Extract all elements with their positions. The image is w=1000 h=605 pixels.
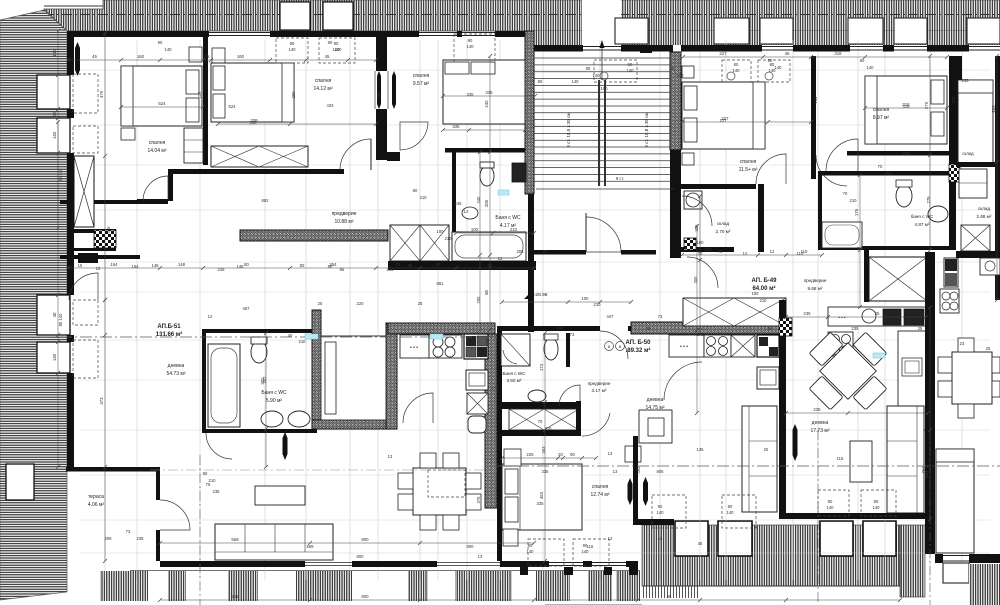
svg-text:АП. Б-50: АП. Б-50 <box>626 340 652 346</box>
svg-text:140: 140 <box>593 73 601 78</box>
wall west small rooms <box>60 200 168 204</box>
svg-text:210: 210 <box>420 195 428 200</box>
svg-text:279: 279 <box>926 196 931 204</box>
roof hatch band top left section <box>44 0 1000 31</box>
svg-text:25: 25 <box>418 301 423 306</box>
dormer window boxes top band <box>280 2 310 30</box>
svg-text:100: 100 <box>582 296 590 301</box>
svg-text:спалня: спалня <box>413 73 430 79</box>
svg-text:25: 25 <box>986 346 991 351</box>
svg-text:220: 220 <box>357 301 365 306</box>
svg-text:дневна: дневна <box>168 363 185 369</box>
svg-text:2.70 м²: 2.70 м² <box>716 229 731 234</box>
svg-text:140: 140 <box>165 47 173 52</box>
svg-text:140: 140 <box>52 131 57 139</box>
svg-text:73: 73 <box>126 529 131 534</box>
b50 dashed skylights <box>528 539 564 566</box>
b49 couch <box>887 406 924 513</box>
b50 top wall <box>497 326 600 331</box>
svg-text:210: 210 <box>209 478 217 483</box>
fr sklad walls <box>956 162 1000 167</box>
stair landing line <box>536 188 674 190</box>
b49 bed1 <box>682 82 765 149</box>
corridor south hatched wall <box>240 230 388 241</box>
b49 sklad door arc <box>687 257 718 288</box>
svg-text:80 140: 80 140 <box>58 313 63 326</box>
b50 closet X strip <box>509 409 579 430</box>
svg-text:90: 90 <box>468 38 473 43</box>
b49 bath walls <box>818 171 949 176</box>
svg-text:463: 463 <box>541 446 546 454</box>
svg-text:25: 25 <box>764 447 769 452</box>
bedroom3 skylight <box>454 34 495 62</box>
closet X left <box>74 156 94 227</box>
svg-text:12: 12 <box>464 209 469 214</box>
svg-text:110: 110 <box>797 251 804 256</box>
balcony window boxes bottom <box>675 521 708 556</box>
svg-text:9 ст. 15,9 х 30 см: 9 ст. 15,9 х 30 см <box>566 112 571 147</box>
svg-text:90: 90 <box>828 499 833 504</box>
svg-text:228: 228 <box>218 267 226 272</box>
fr west wall lower <box>925 430 935 554</box>
svg-text:473: 473 <box>99 397 104 405</box>
svg-text:140: 140 <box>289 47 297 52</box>
left band window boxes <box>37 75 70 109</box>
checker on party wall <box>779 318 792 336</box>
svg-text:70: 70 <box>718 249 723 254</box>
svg-text:302: 302 <box>262 376 267 384</box>
svg-text:206: 206 <box>105 536 113 541</box>
bath417 top wall <box>445 148 534 153</box>
b49 sklad washer <box>684 191 702 209</box>
svg-text:80: 80 <box>52 111 57 116</box>
svg-text:210: 210 <box>545 426 553 431</box>
b50 shower <box>501 334 530 366</box>
svg-text:164: 164 <box>110 262 118 267</box>
party wall radiator bars <box>377 71 381 109</box>
svg-text:12: 12 <box>743 251 748 256</box>
svg-text:Баня с WC: Баня с WC <box>261 390 287 396</box>
svg-text:170: 170 <box>492 386 500 391</box>
nightstands beds <box>189 47 202 62</box>
svg-text:210: 210 <box>299 339 307 344</box>
bath590 walls <box>202 329 317 333</box>
b50 entry gap arc <box>600 331 628 359</box>
section mark circles <box>605 342 614 351</box>
svg-text:9 ст.: 9 ст. <box>616 176 624 181</box>
bottom-left terrace hatch columns <box>100 571 148 601</box>
b49 bedroom south wall <box>680 184 756 189</box>
elevator car <box>321 336 386 420</box>
svg-text:15: 15 <box>96 266 101 271</box>
b50 kitchen sink below <box>757 367 779 389</box>
b50 entry arc <box>664 362 702 400</box>
terrace door arc <box>160 500 190 530</box>
left terrace hatch band <box>0 10 67 600</box>
corridor nw niche wall <box>137 199 168 203</box>
corridor north wall <box>168 169 344 174</box>
svg-text:45: 45 <box>408 263 413 268</box>
bottom-right balcony hatch tall part <box>900 525 925 597</box>
svg-text:45: 45 <box>325 54 330 59</box>
svg-text:100: 100 <box>437 229 445 234</box>
svg-text:175: 175 <box>854 208 859 216</box>
svg-text:.89.32 м²: .89.32 м² <box>626 347 651 354</box>
svg-text:спалня: спалня <box>149 140 166 146</box>
svg-text:спалня: спалня <box>592 484 609 490</box>
corridor X closet <box>390 225 449 261</box>
svg-text:210: 210 <box>705 247 713 252</box>
svg-text:предверие: предверие <box>332 211 357 217</box>
svg-text:дневна: дневна <box>647 397 664 403</box>
svg-text:160: 160 <box>601 86 609 91</box>
svg-text:90: 90 <box>203 471 208 476</box>
svg-text:235: 235 <box>213 489 221 494</box>
black box wc left <box>78 253 98 263</box>
svg-text:9.68 м²: 9.68 м² <box>808 286 823 291</box>
b49 X dining table <box>791 314 904 427</box>
svg-text:338: 338 <box>250 120 258 125</box>
svg-text:25: 25 <box>488 263 493 268</box>
left outer wall <box>67 31 74 75</box>
party wall top section <box>376 31 387 71</box>
svg-text:80: 80 <box>734 62 739 67</box>
b51 south window lines <box>305 562 352 564</box>
svg-text:140: 140 <box>867 65 875 70</box>
construction grid lines <box>104 40 106 580</box>
b49 bedroom2 south wall <box>847 151 956 156</box>
b49 party wall b50 <box>779 300 786 410</box>
svg-text:210: 210 <box>760 298 768 303</box>
bath590 tub <box>208 344 240 427</box>
svg-text:205: 205 <box>484 199 489 207</box>
svg-text:АП. Б-49: АП. Б-49 <box>752 278 778 284</box>
svg-text:280: 280 <box>291 91 296 99</box>
svg-text:80: 80 <box>770 62 775 67</box>
svg-text:9.57 м²: 9.57 м² <box>413 81 430 87</box>
b49 bath tub small <box>822 222 862 248</box>
bath417 tub <box>452 232 526 261</box>
svg-text:225: 225 <box>526 452 534 457</box>
landing right wall lower <box>670 194 681 258</box>
b50 small table <box>639 410 672 443</box>
svg-text:• • •: • • • <box>410 345 418 351</box>
svg-text:140: 140 <box>627 68 635 73</box>
b49 bed1 side tables <box>682 66 694 78</box>
roof hatch band right tall section <box>534 31 1000 45</box>
svg-text:9 ст. 15,8 х 30 см: 9 ст. 15,8 х 30 см <box>644 112 649 147</box>
svg-text:463: 463 <box>539 491 544 499</box>
b50 south wall piers <box>545 561 549 567</box>
svg-text:211: 211 <box>813 96 818 103</box>
bed 1 <box>121 66 202 126</box>
bed 2 <box>211 63 294 122</box>
b49 dashed skylights <box>818 490 849 516</box>
svg-text:131.66 м²: 131.66 м² <box>156 331 182 338</box>
svg-text:140: 140 <box>527 549 535 554</box>
roof ridge line <box>44 5 103 7</box>
svg-text:спалня: спалня <box>740 159 757 165</box>
fr east wall <box>995 56 1000 300</box>
b50 sink <box>528 390 546 402</box>
svg-text:80: 80 <box>484 290 489 295</box>
svg-text:80: 80 <box>860 58 865 63</box>
elevator shaft hatched U <box>312 310 321 429</box>
svg-text:335: 335 <box>452 124 460 129</box>
svg-text:210: 210 <box>885 171 893 176</box>
svg-text:279: 279 <box>951 96 956 104</box>
svg-text:12: 12 <box>498 256 503 261</box>
stair left wall <box>525 31 534 194</box>
svg-text:90: 90 <box>768 326 773 331</box>
svg-text:90: 90 <box>290 41 295 46</box>
b50 toilet <box>544 338 558 360</box>
svg-text:• • •: • • • <box>838 315 846 320</box>
svg-text:4.06 м²: 4.06 м² <box>88 502 105 508</box>
svg-text:90: 90 <box>583 543 588 548</box>
svg-text:173: 173 <box>539 363 544 371</box>
svg-text:805: 805 <box>657 469 665 474</box>
svg-text:80: 80 <box>328 264 333 269</box>
svg-text:45: 45 <box>658 536 663 541</box>
svg-text:318: 318 <box>903 104 911 109</box>
svg-text:335: 335 <box>542 469 550 474</box>
svg-text:80: 80 <box>300 263 305 268</box>
svg-text:45: 45 <box>205 54 210 59</box>
svg-text:70: 70 <box>878 164 883 169</box>
svg-text:23: 23 <box>960 341 965 346</box>
svg-text:25: 25 <box>396 262 401 267</box>
b49 sklad checker <box>684 238 696 250</box>
svg-text:45: 45 <box>667 594 672 599</box>
svg-text:15: 15 <box>78 263 83 268</box>
b51 bath door arc <box>206 433 232 459</box>
svg-text:335: 335 <box>537 501 545 506</box>
svg-text:524: 524 <box>158 101 166 106</box>
svg-text:90: 90 <box>874 499 879 504</box>
svg-text:140: 140 <box>467 44 475 49</box>
svg-text:13: 13 <box>478 554 483 559</box>
svg-text:90: 90 <box>628 62 633 67</box>
svg-text:85: 85 <box>340 267 345 272</box>
b49 bath door arc <box>826 139 858 171</box>
svg-text:227: 227 <box>719 51 727 56</box>
svg-text:70: 70 <box>843 191 848 196</box>
b49 tv table <box>850 441 872 482</box>
b49 corridor door arc from stair <box>682 196 712 226</box>
svg-text:140: 140 <box>677 73 685 78</box>
svg-text:90: 90 <box>728 504 733 509</box>
center dash-dot line horizontal <box>0 336 497 338</box>
stair right wall <box>670 52 681 150</box>
door arc niche nw <box>143 176 168 201</box>
svg-text:73: 73 <box>570 332 575 337</box>
kitchen U hatched b51 <box>388 323 495 334</box>
svg-text:447: 447 <box>607 314 615 319</box>
svg-text:800: 800 <box>361 537 369 542</box>
top wall right window lines <box>583 46 621 48</box>
svg-text:235: 235 <box>852 326 860 331</box>
svg-text:баня с WC: баня с WC <box>911 214 934 219</box>
svg-text:дневна: дневна <box>812 420 829 426</box>
svg-text:25: 25 <box>918 326 923 331</box>
svg-text:210: 210 <box>850 198 858 203</box>
svg-text:• • •: • • • <box>680 344 688 350</box>
svg-text:25: 25 <box>543 249 548 254</box>
svg-text:255: 255 <box>517 249 525 254</box>
door arc left wc <box>69 273 98 300</box>
bedroom1 wardrobe <box>184 128 203 163</box>
svg-text:5.90 м²: 5.90 м² <box>266 398 283 404</box>
svg-text:70: 70 <box>538 419 543 424</box>
svg-text:90: 90 <box>586 66 591 71</box>
svg-text:569: 569 <box>231 537 239 542</box>
top wall window lines <box>209 32 270 34</box>
svg-text:90: 90 <box>158 40 163 45</box>
svg-text:140: 140 <box>52 49 57 57</box>
svg-text:14.75 м²: 14.75 м² <box>645 405 664 411</box>
fr kitchen sink <box>980 258 1000 275</box>
fr dashdot <box>929 430 931 605</box>
svg-text:25: 25 <box>318 301 323 306</box>
door arc bedroom2 <box>340 139 371 170</box>
svg-text:479: 479 <box>99 90 104 98</box>
svg-text:882: 882 <box>262 198 270 203</box>
svg-text:160: 160 <box>237 54 245 59</box>
svg-text:279: 279 <box>924 101 929 109</box>
bath417 left wall <box>452 152 456 250</box>
svg-text:13: 13 <box>613 469 618 474</box>
svg-text:45: 45 <box>436 262 441 267</box>
svg-text:12.74 м²: 12.74 м² <box>590 492 609 498</box>
svg-text:205: 205 <box>476 296 481 304</box>
landing door arc <box>586 217 621 252</box>
svg-text:45: 45 <box>785 51 790 56</box>
fr burners <box>940 289 959 313</box>
svg-text:90: 90 <box>570 452 575 457</box>
b49 south wall <box>786 513 928 519</box>
svg-text:375: 375 <box>476 496 481 504</box>
b50 bed side table <box>503 529 518 546</box>
b50 east wall <box>633 436 638 525</box>
b51 south wall <box>160 561 305 567</box>
svg-text:склад: склад <box>962 151 974 156</box>
b49 bedroom door arc <box>756 154 786 184</box>
b50 kitchen hatch strip <box>631 322 788 334</box>
svg-text:80: 80 <box>538 79 543 84</box>
svg-text:210: 210 <box>445 236 453 241</box>
bath590 sinks <box>261 411 283 427</box>
b49 kitchen counter row <box>828 307 926 326</box>
balcony hatch lower extension <box>643 586 700 598</box>
balcony lower edge line <box>642 585 900 587</box>
svg-text:235: 235 <box>813 407 821 412</box>
svg-text:148: 148 <box>152 263 160 268</box>
svg-text:140: 140 <box>873 505 881 510</box>
svg-text:160: 160 <box>137 54 145 59</box>
b49 hall closet X strip <box>683 298 786 326</box>
fr shower X <box>961 225 990 251</box>
svg-text:800: 800 <box>467 544 475 549</box>
b49 east wall lower <box>925 252 935 430</box>
svg-text:335: 335 <box>467 92 475 97</box>
fr south wall <box>935 554 943 563</box>
svg-text:склад: склад <box>978 206 991 211</box>
svg-text:135: 135 <box>697 447 705 452</box>
svg-text:569: 569 <box>307 544 315 549</box>
svg-text:206: 206 <box>376 91 381 99</box>
svg-text:предверие: предверие <box>588 381 611 386</box>
svg-text:140: 140 <box>733 68 741 73</box>
svg-text:208: 208 <box>903 151 911 156</box>
roof band dashdot line <box>44 14 1000 16</box>
svg-text:475: 475 <box>106 226 111 234</box>
svg-text:140: 140 <box>582 549 590 554</box>
svg-text:склад: склад <box>717 221 730 226</box>
svg-text:140: 140 <box>333 47 341 52</box>
svg-text:4.87 м²: 4.87 м² <box>915 222 930 227</box>
fr balcony window box <box>943 563 969 583</box>
kitchen b51 sink <box>466 370 488 390</box>
svg-text:12: 12 <box>770 249 775 254</box>
svg-text:100: 100 <box>752 291 760 296</box>
top wall right section <box>534 45 583 52</box>
wall pier box <box>640 45 652 53</box>
svg-text:335: 335 <box>485 90 493 95</box>
b49 kitchen right col <box>898 331 926 430</box>
b49 bedroom skylight dashed boxes <box>722 60 751 82</box>
kitchen b51 counters <box>400 335 429 358</box>
door arc corridor east <box>400 122 428 150</box>
fr unit west wall <box>956 56 962 162</box>
svg-text:140: 140 <box>657 510 665 515</box>
svg-text:148: 148 <box>178 262 186 267</box>
bath417 boiler dark <box>512 163 526 182</box>
svg-text:164: 164 <box>132 264 140 269</box>
svg-text:80: 80 <box>413 188 418 193</box>
party wall lower section <box>376 109 387 160</box>
svg-text:245: 245 <box>484 100 489 108</box>
svg-text:254: 254 <box>387 267 395 272</box>
svg-text:+28.98: +28.98 <box>533 292 548 298</box>
checker shaft right <box>949 164 960 182</box>
svg-text:8.97 м²: 8.97 м² <box>873 115 890 121</box>
band B window boxes <box>615 18 648 44</box>
fr bed top <box>958 80 993 164</box>
svg-text:206: 206 <box>197 91 202 99</box>
svg-text:90: 90 <box>528 543 533 548</box>
svg-text:140: 140 <box>52 353 57 361</box>
skylight dashed boxes bedroom2 <box>276 38 308 63</box>
b51 kitchen door arc <box>403 393 433 423</box>
bath417 toilet <box>480 166 494 186</box>
svg-text:205: 205 <box>962 78 970 83</box>
svg-text:245: 245 <box>476 196 481 204</box>
svg-text:210: 210 <box>510 227 518 232</box>
svg-text:100: 100 <box>697 240 705 245</box>
svg-text:25: 25 <box>875 311 880 316</box>
svg-text:11.5+ м²: 11.5+ м² <box>739 167 758 173</box>
fr bed bottom <box>936 449 974 553</box>
stair skylight dashed <box>594 60 637 82</box>
fr dining <box>952 352 992 404</box>
fr closet box <box>959 169 987 198</box>
svg-text:54.73 м²: 54.73 м² <box>166 371 185 377</box>
stair treads <box>534 57 670 59</box>
bath417 bottom wall <box>388 261 536 270</box>
svg-text:433: 433 <box>327 103 335 108</box>
b51 coffee table <box>255 486 305 505</box>
